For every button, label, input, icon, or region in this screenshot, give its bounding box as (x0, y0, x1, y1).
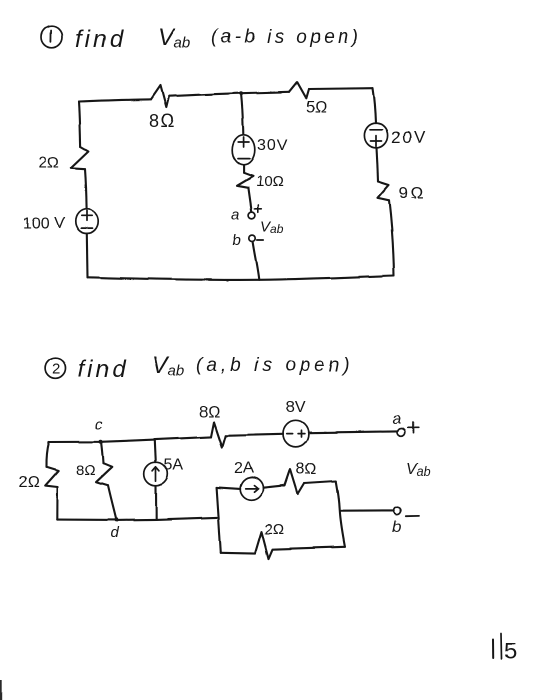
svg-text:a: a (392, 411, 401, 428)
svg-text:2Ω: 2Ω (264, 521, 284, 538)
svg-text:8Ω: 8Ω (296, 461, 317, 478)
svg-text:8V: 8V (286, 399, 306, 416)
svg-text:b: b (233, 232, 241, 249)
wire: box to terminal b (340, 510, 394, 512)
source 20V (364, 123, 387, 148)
wire: 30V to 10-ohm (243, 165, 245, 173)
wire: top-left corner to 8-ohm (79, 99, 151, 101)
svg-text:30V: 30V (257, 137, 288, 154)
resistor R 10ohm (middle branch) (237, 173, 253, 188)
svg-text:d: d (110, 524, 119, 541)
wire: left edge, top-left down to 2-ohm (79, 102, 81, 148)
wire: 9-ohm to bottom-right corner (389, 200, 394, 275)
svg-text:(a-b is open): (a-b is open) (211, 27, 362, 48)
svg-text:9Ω: 9Ω (399, 183, 426, 202)
resistor R 9ohm (right edge) (378, 181, 390, 200)
svg-text:5: 5 (504, 638, 517, 664)
resistor R 2ohm (left edge) (45, 467, 59, 487)
wire: 100V to bottom-left corner (86, 234, 89, 277)
svg-text:Vab: Vab (152, 352, 185, 380)
terminal a (open node) (397, 429, 405, 437)
svg-text:2A: 2A (234, 460, 254, 477)
svg-text:b: b (393, 519, 402, 536)
resistor R 8ohm (top wire) (151, 86, 169, 108)
svg-text:10Ω: 10Ω (256, 173, 284, 190)
wire: right edge down to 20V (373, 88, 376, 123)
box bottom wire (221, 532, 345, 559)
svg-text:Vab: Vab (260, 218, 284, 236)
svg-text:2Ω: 2Ω (38, 155, 59, 172)
svg-text:8Ω: 8Ω (199, 404, 220, 421)
wire: 5A branch top (155, 440, 156, 462)
wire: terminal b down to bottom wire (253, 242, 259, 280)
source 30V (232, 135, 255, 165)
node d junction (114, 518, 118, 522)
current source 5A (144, 462, 168, 486)
wire: 5-ohm to top-right corner (309, 87, 374, 90)
svg-text:find: find (78, 356, 129, 383)
wire: 8-ohm to 8V source (226, 434, 283, 436)
wire: 2-ohm to 100V source (85, 169, 87, 209)
title 2 text "find Vab (a,b is open)" (78, 352, 354, 383)
svg-text:5Ω: 5Ω (306, 99, 327, 116)
svg-text:Vab: Vab (406, 461, 431, 479)
terminal b (open node) (249, 235, 255, 241)
box right edge (336, 481, 345, 547)
resistor R 2ohm (left edge) (71, 147, 89, 169)
svg-text:(a,b is open): (a,b is open) (196, 355, 354, 376)
resistor R 8ohm (box top) (285, 470, 305, 494)
problem 1 circled number (41, 26, 62, 48)
svg-text:5A: 5A (164, 457, 184, 474)
bottom wire left section (57, 517, 217, 520)
node junction top middle (239, 91, 243, 95)
inner box left edge (217, 487, 221, 552)
wire: 2-ohm to bottom-left corner (56, 487, 58, 520)
svg-text:c: c (95, 416, 103, 433)
wire: branch c down to 8-ohm (101, 442, 103, 464)
svg-text:20V: 20V (391, 128, 427, 147)
wire: 8-ohm to middle junction (169, 93, 241, 96)
box top wire to 2A source (217, 487, 241, 489)
wire: 5A down to bottom wire (155, 486, 157, 520)
title 1 text "find Vab (a-b is open)" (75, 24, 362, 53)
top wire: left corner to node c to 8-ohm (49, 437, 211, 442)
terminal b (open node) (394, 507, 401, 514)
svg-text:2Ω: 2Ω (19, 474, 40, 491)
svg-text:2: 2 (52, 361, 60, 378)
wire: 8V to terminal a (308, 431, 397, 432)
page number 1|5 (493, 634, 517, 665)
source 100V (76, 209, 98, 234)
resistor R 8ohm (branch c-d) (96, 464, 112, 486)
wire: 20V to 9-ohm (377, 148, 379, 181)
wire: 10-ohm to terminal a (248, 188, 251, 212)
resistor R 5ohm (top wire) (289, 82, 309, 98)
svg-text:100 V: 100 V (23, 215, 65, 232)
bottom wire (88, 276, 394, 280)
node c junction (99, 440, 103, 444)
svg-text:8Ω: 8Ω (149, 111, 175, 131)
wire: 2A to 8-ohm (box top) (263, 486, 285, 488)
source 8V (283, 420, 308, 447)
wire: middle branch, junction down to 30V (241, 93, 243, 134)
svg-text:Vab: Vab (158, 24, 191, 52)
svg-text:a: a (232, 206, 240, 223)
scan artifact left edge (0, 680, 2, 700)
svg-text:8Ω: 8Ω (76, 462, 96, 479)
terminal a (open node) (249, 212, 256, 219)
svg-text:find: find (75, 26, 126, 53)
problem 2 circled number (45, 358, 65, 379)
resistor R 8ohm (top wire) (211, 422, 226, 447)
wire: junction to 5-ohm (241, 92, 289, 93)
wire: left edge down to 2-ohm (46, 442, 49, 467)
wire: 8-ohm down to node d (108, 486, 116, 520)
wire: 8-ohm to box top-right corner (305, 481, 337, 483)
current source 2A (240, 478, 263, 501)
